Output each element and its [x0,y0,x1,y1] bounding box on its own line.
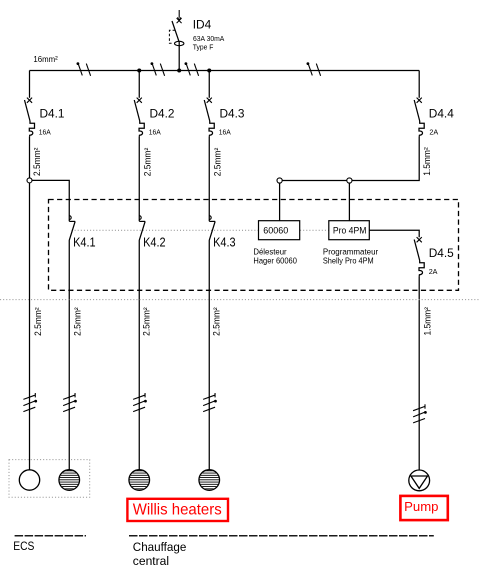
wire K4.3 to heater [208,240,210,470]
conductor marks wire 2 [63,393,77,412]
svg-text:D4.3: D4.3 [220,107,245,121]
svg-text:D4.1: D4.1 [40,107,65,121]
svg-text:2.5mm²: 2.5mm² [213,148,223,177]
svg-text:2.5mm²: 2.5mm² [33,307,43,336]
wire D4.3 to K4.3 [208,137,210,221]
svg-text:D4.2: D4.2 [150,107,175,121]
junction node on bus at ID4 [177,69,181,73]
wire node to K4.1 [32,180,69,221]
svg-text:Pump: Pump [404,499,438,514]
wire node down to ECS load [29,183,31,470]
svg-text:16A: 16A [39,128,51,137]
svg-text:Pro 4PM: Pro 4PM [333,225,367,236]
junction node on bus at D4.2 [137,69,141,73]
svg-text:K4.3: K4.3 [213,235,236,250]
svg-text:Willis heaters: Willis heaters [133,502,222,519]
ECS dotted group box [9,460,90,498]
conductor marks pump wire [413,404,427,423]
bus conductor marks (right segment) [307,62,321,76]
conductor marks wire 3 [133,393,147,412]
svg-text:2.5mm²: 2.5mm² [212,307,222,336]
svg-text:1.5mm²: 1.5mm² [423,307,433,336]
ECS heater via K4.1 (hatched) [59,470,80,491]
bus 16mm2 [30,70,420,72]
svg-text:K4.1: K4.1 [73,235,96,250]
ECS group rule [15,535,86,537]
svg-text:D4.4: D4.4 [429,107,454,121]
wire K4.1 to heater [68,240,70,470]
Willis heater 1 (hatched) [129,470,150,491]
svg-text:K4.2: K4.2 [143,235,166,250]
svg-text:ECS: ECS [13,539,34,553]
wire node to Pro 4PM box [348,183,350,221]
Willis heater 2 (hatched) [199,470,220,491]
contactor contact K4.1 [69,216,95,250]
programmer box Pro 4PM [329,221,370,240]
breaker D4.5 [414,237,454,276]
contactor contact K4.3 [209,216,235,250]
breaker D4.1 [25,98,65,137]
page divider dotted line [0,299,480,301]
svg-text:central: central [133,554,169,568]
conductor marks wire 4 [203,393,217,412]
wire bus to D4.3 [208,71,210,98]
wire D4.2 to K4.2 [138,137,140,221]
svg-text:16A: 16A [149,128,161,137]
Willis heaters red label [127,499,228,521]
svg-text:60060: 60060 [263,225,288,236]
bus conductor marks (left of ID4 node) [151,62,165,76]
svg-text:2.5mm²: 2.5mm² [142,307,152,336]
mechanical link dotted line [72,229,329,231]
wire bus to D4.1 [29,71,31,98]
svg-text:2A: 2A [429,267,438,276]
svg-text:Chauffage: Chauffage [133,540,187,554]
load shedder box 60060 [259,221,300,240]
RCD ID4 [169,10,224,71]
junction node on bus at D4.3 [207,69,211,73]
svg-text:2.5mm²: 2.5mm² [32,148,42,177]
bus conductor marks (right of ID4 node) [185,62,199,76]
bus conductor marks (left segment) [77,62,91,76]
svg-text:Type F: Type F [193,43,214,52]
wire bus to D4.2 [138,71,140,98]
breaker D4.3 [204,98,245,137]
node ECS split [27,178,32,183]
conductor marks wire 1 [23,393,37,412]
svg-text:ID4: ID4 [193,18,212,32]
wire D4.1 to node [29,137,31,178]
contactor contact K4.2 [139,216,165,250]
svg-text:2.5mm²: 2.5mm² [73,307,83,336]
node to Pro 4PM [347,178,352,183]
wire bus to D4.4 [418,71,420,98]
svg-text:Hager 60060: Hager 60060 [253,256,297,266]
node to 60060 [277,178,282,183]
breaker D4.4 [414,98,454,137]
pump symbol [409,470,430,491]
wire node to 60060 box [279,183,281,221]
wire Pro 4PM to D4.5 [369,230,419,237]
breaker D4.2 [134,98,175,137]
dashed enclosure box [49,200,459,291]
Chauffage group rule [129,535,434,537]
svg-text:2A: 2A [429,128,438,137]
svg-text:16A: 16A [219,128,231,137]
wire D4.5 to pump [418,276,420,470]
wire K4.2 to heater [138,240,140,470]
svg-text:Shelly Pro 4PM: Shelly Pro 4PM [323,256,374,266]
svg-text:16mm²: 16mm² [33,54,57,64]
svg-text:2.5mm²: 2.5mm² [143,148,153,177]
wire D4.4 down and left to control boxes [282,137,419,181]
svg-text:D4.5: D4.5 [429,246,454,260]
ECS water heater (plain circle) [19,470,39,490]
Pump red label [400,496,447,520]
svg-text:1.5mm²: 1.5mm² [422,147,432,176]
